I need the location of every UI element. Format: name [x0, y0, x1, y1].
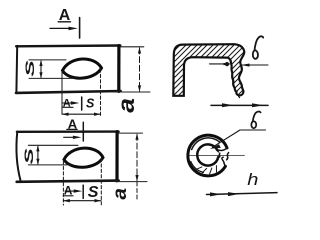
- label delta (ring) : glyph: [251, 112, 260, 129]
- dimension S (vertical, plate 1) : dimension line with arrows: [39, 60, 42, 79]
- plate 2 outline: [17, 132, 119, 182]
- svg-text:a: a: [110, 188, 131, 200]
- section marker A (top) : cut tick: [79, 18, 81, 39]
- section marker A (top) : letter A: [58, 7, 71, 24]
- dimension delta (section) : left arrow line with dot: [210, 62, 231, 66]
- ring inner lap line (double stroke of curled sheet, upper half): [192, 138, 220, 150]
- svg-text:S: S: [24, 60, 38, 77]
- ring inner lap line (lower-left): [191, 162, 204, 173]
- dimension line S (below plate 1): [62, 113, 101, 116]
- ring gap squiggles (overlapping curled ends): [218, 148, 229, 166]
- section marker A (middle) : cut tick: [81, 97, 83, 110]
- lens-shaped hole in plate 1: [63, 59, 102, 78]
- label delta (section, handwritten): [253, 36, 263, 58]
- double-arrow line (bottom): [207, 192, 278, 196]
- double-arrow line (below section): [211, 103, 268, 107]
- lens-shaped hole in plate 2: [64, 148, 103, 167]
- centerline through ring: [188, 154, 245, 156]
- svg-text:S: S: [88, 184, 99, 201]
- section marker A (above plate 2) : letter A: [67, 117, 78, 132]
- section marker A (middle) : arrow: [62, 101, 79, 104]
- extension line from lens 1 right tip (dashed): [100, 69, 102, 118]
- section A-A outline (folded seam cross-section): [173, 44, 244, 96]
- dimension a (right of plate 1) : dimension line with arrows: [138, 47, 141, 92]
- ring outer circle (with gap at right): [188, 135, 227, 176]
- dimension a (right of plate 2) : dimension line with arrows: [135, 133, 138, 199]
- section A-A break-line tail at strip bottom: [239, 96, 240, 97]
- extension line from lens 2 right tip (dashed): [100, 159, 102, 206]
- section marker A (top) : arrow: [50, 27, 78, 31]
- extension line from lens 2 left tip (dashed): [62, 161, 64, 205]
- svg-text:a: a: [115, 98, 140, 113]
- dimension line S (below plate 2): [63, 199, 101, 202]
- dimension a (right of plate 2) : extension lines: [115, 133, 147, 182]
- svg-text:h: h: [247, 170, 258, 189]
- extension line from lens 1 left tip: [61, 72, 63, 114]
- dimension a (right of plate 1) : extension lines: [113, 47, 150, 92]
- section marker A (below plate 2) : arrow: [65, 189, 82, 192]
- ring fold tick marks across the wall: [196, 166, 216, 174]
- section marker A (middle, below plate 1) : letter A: [62, 97, 73, 109]
- plate 1 outline: [16, 46, 121, 93]
- section marker A (above plate 2) : cut tick: [82, 122, 84, 141]
- dimension S (vertical, plate 2) : dimension line with arrows: [36, 145, 39, 165]
- dimension delta (section) : right arrow line: [241, 64, 268, 67]
- dimension S (vertical, plate 2) : extension lines: [28, 145, 78, 165]
- dimension S (vertical, plate 1) : extension lines: [29, 60, 75, 79]
- section marker A (below plate 2) : cut tick: [82, 185, 84, 198]
- ring inner circle (with gap at right): [197, 144, 218, 165]
- svg-text:S: S: [23, 148, 36, 164]
- svg-text:S: S: [86, 97, 95, 111]
- section marker A (below plate 2) : letter A: [63, 184, 73, 198]
- section A-A hatching: [118, 38, 301, 102]
- section marker A (above plate 2) : arrow: [64, 136, 82, 139]
- label delta (ring) : underline and leader arrow: [210, 130, 266, 149]
